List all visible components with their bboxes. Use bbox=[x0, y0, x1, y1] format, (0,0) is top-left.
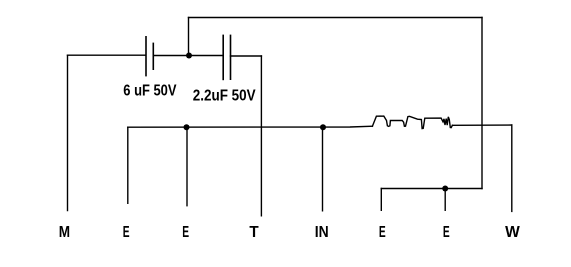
wire W vertical bbox=[511, 125, 513, 211]
capacitor C2 2.2uF 50V bbox=[223, 35, 230, 79]
junction node C middle bus bbox=[320, 124, 326, 130]
wire middle bus horizontal bbox=[128, 126, 373, 127]
svg-text:6 uF 50V: 6 uF 50V bbox=[123, 82, 177, 100]
junction node A caps bbox=[186, 53, 192, 59]
wire C2 to T corner bbox=[231, 55, 262, 57]
wire IN vertical bbox=[322, 127, 324, 211]
svg-text:IN: IN bbox=[315, 223, 329, 241]
svg-text:W: W bbox=[505, 224, 520, 241]
svg-text:E: E bbox=[379, 223, 386, 241]
inductor L1 bbox=[372, 116, 452, 129]
svg-text:2.2uF 50V: 2.2uF 50V bbox=[193, 88, 256, 105]
wire L1 to W corner bbox=[452, 124, 511, 126]
svg-text:M: M bbox=[59, 224, 70, 241]
wire E3 vertical bbox=[380, 189, 382, 211]
wire E2 vertical bbox=[186, 127, 188, 206]
wire M branch vertical bbox=[67, 55, 69, 210]
svg-text:T: T bbox=[249, 224, 259, 241]
svg-text:E: E bbox=[182, 223, 189, 241]
junction node D bottom bus bbox=[442, 186, 448, 192]
svg-text:E: E bbox=[443, 223, 450, 241]
wire E1 vertical bbox=[127, 127, 129, 203]
capacitor C1 6uF 50V bbox=[146, 37, 153, 76]
wire T vertical bbox=[260, 56, 262, 216]
svg-text:E: E bbox=[123, 223, 130, 241]
wire bottom right bus horizontal bbox=[381, 188, 482, 190]
wire E4 vertical bbox=[444, 189, 446, 211]
wire C1 to C2 bbox=[153, 55, 223, 57]
wire top bus horizontal bbox=[189, 17, 483, 19]
wire right bus vertical bbox=[481, 18, 483, 189]
wire top bus riser from node A bbox=[188, 18, 190, 56]
wire M branch horizontal bbox=[68, 54, 146, 56]
junction node B middle bus bbox=[184, 124, 190, 130]
